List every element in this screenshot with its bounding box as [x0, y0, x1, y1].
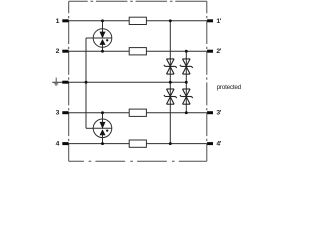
junction node ground/TVS column x186 — [185, 81, 188, 84]
junction node row2/GDT — [101, 50, 104, 53]
wire row 4 left — [65, 143, 129, 145]
terminal 3 — [62, 111, 68, 114]
junction node row3/GDT — [101, 111, 104, 114]
resistor line 2 — [129, 48, 146, 55]
junction node row3/TVS column — [185, 111, 188, 114]
junction node row2/TVS column — [185, 50, 188, 53]
wire row 2 left — [65, 50, 129, 52]
wire TVS column x=170 (row1 to row4) — [169, 21, 171, 144]
wire row 2 right — [146, 50, 207, 52]
wire row 3 right — [146, 112, 207, 114]
terminal 2' — [207, 50, 213, 53]
enclosure border (dash-dot box) — [69, 1, 207, 161]
junction node ground/GDT electrode — [85, 81, 88, 84]
ground symbol (earth) — [54, 78, 58, 85]
gas discharge tube (3-electrode) bottom, lines 3-4 — [93, 119, 112, 138]
wire stub row3 to bottom GDT — [102, 113, 104, 120]
terminal 4 — [62, 142, 68, 145]
terminal 1' — [207, 19, 213, 22]
TVS suppressor diode, line 4 (x=170 bottom) — [164, 89, 177, 104]
wire GDT centre-electrode vertical (x=86) — [85, 38, 87, 128]
wire ground row — [52, 81, 186, 83]
resistor line 1 — [129, 17, 146, 24]
svg-text:1′: 1′ — [216, 18, 221, 25]
wire row 1 left — [65, 20, 129, 22]
terminal 3' — [207, 111, 213, 114]
gas discharge tube (3-electrode) top, lines 1-2 — [93, 29, 112, 48]
junction node row1/TVS column — [169, 19, 172, 22]
TVS suppressor diode, line 3 (x=186 bottom) — [180, 89, 193, 104]
svg-text:protected: protected — [217, 84, 242, 91]
TVS suppressor diode, line 2 (x=186 top) — [180, 59, 193, 74]
terminal 1 — [62, 19, 68, 22]
wire TVS column x=186 (row2 to row3) — [185, 51, 187, 112]
terminal ground — [62, 81, 68, 84]
wire bottom GDT to row4 — [102, 137, 104, 143]
svg-text:2′: 2′ — [216, 48, 221, 55]
resistor line 3 — [129, 109, 146, 116]
wire row 3 left — [65, 112, 129, 114]
svg-text:4: 4 — [56, 141, 60, 148]
svg-text:1: 1 — [56, 18, 60, 25]
resistor line 4 — [129, 140, 146, 147]
svg-text:3′: 3′ — [216, 110, 221, 117]
wire stub row1 to top GDT — [102, 21, 104, 29]
junction node row1/GDT — [101, 19, 104, 22]
junction node row4/TVS column — [169, 142, 172, 145]
wire row 4 right — [146, 143, 207, 145]
junction node ground/TVS column x170 — [169, 81, 172, 84]
wire row 1 right — [146, 20, 207, 22]
terminal 2 — [62, 50, 68, 53]
svg-text:4′: 4′ — [216, 141, 221, 148]
TVS suppressor diode, line 1 (x=170 top) — [164, 59, 177, 74]
svg-text:3: 3 — [56, 110, 60, 117]
wire top GDT centre stub — [86, 37, 93, 39]
terminal 4' — [207, 142, 213, 145]
junction node row4/GDT — [101, 142, 104, 145]
wire top GDT to row2 — [102, 47, 104, 51]
svg-text:2: 2 — [56, 48, 60, 55]
wire bottom GDT centre stub — [86, 127, 93, 129]
